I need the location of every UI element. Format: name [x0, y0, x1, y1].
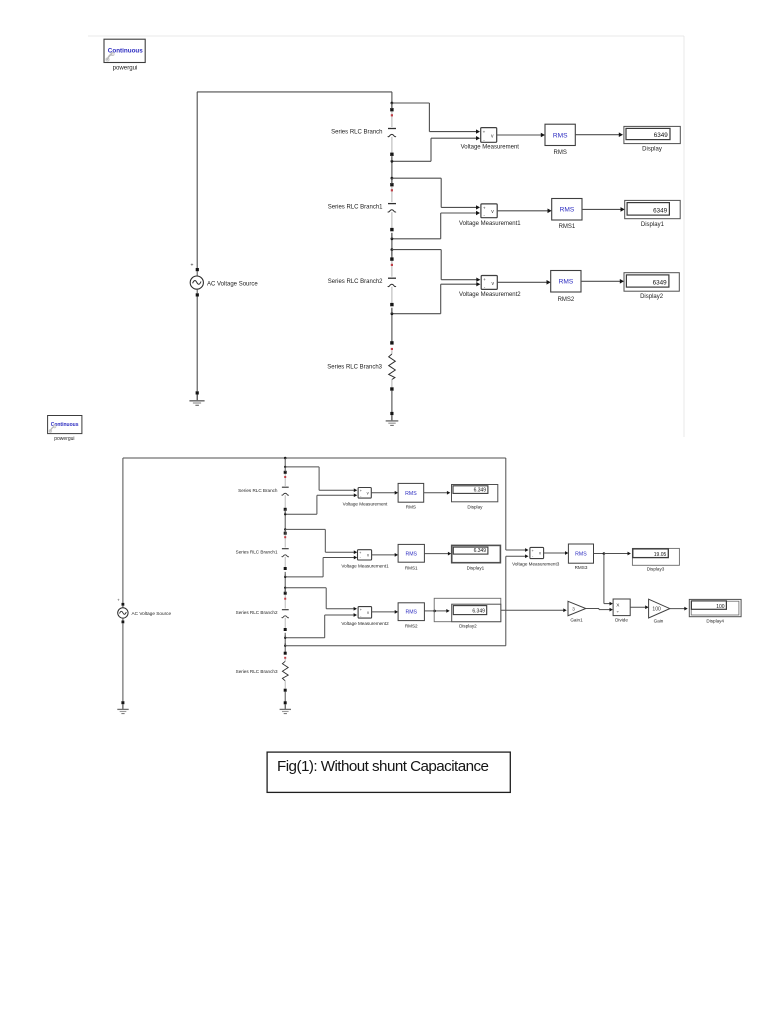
- wire: RMS to Display (lower row1): [424, 492, 449, 494]
- wire: branch node to VM+ (lower): [284, 528, 286, 530]
- wire: lower between branch3 and bottom nodes: [284, 635, 286, 652]
- display block: Display: [624, 126, 680, 143]
- svg-text:Display2: Display2: [459, 624, 477, 629]
- wire: vertical between nodes (lower): [284, 529, 286, 534]
- svg-text:Display: Display: [642, 147, 662, 153]
- gain block: Gain: [649, 599, 670, 618]
- svg-text:RMS: RMS: [575, 552, 587, 558]
- wire: branch node to VM+ (top): [391, 177, 394, 180]
- wire: Gain1 to Divide bottom input: [586, 608, 599, 610]
- svg-text:Series RLC Branch1: Series RLC Branch1: [236, 549, 278, 554]
- svg-text:6.349: 6.349: [472, 609, 485, 615]
- RMS block: RMS2: [398, 603, 424, 621]
- svg-text:Voltage Measurement: Voltage Measurement: [461, 145, 520, 151]
- display block: Display2: [452, 604, 501, 622]
- caption box: [267, 752, 510, 792]
- wire: RMS2 to Display2: [581, 280, 623, 282]
- voltage measurement block: Voltage Measurement3: [530, 547, 544, 558]
- svg-text:+: +: [483, 129, 486, 134]
- wire: VM- return to branch node (top): [441, 212, 479, 214]
- ground G3 (left, lower diagram): [117, 701, 128, 713]
- display block: Display1: [625, 200, 681, 218]
- svg-text:Gain1: Gain1: [570, 618, 583, 623]
- wire: VM2 to RMS2 (lower): [372, 611, 397, 613]
- svg-text:+: +: [191, 263, 194, 269]
- svg-text:powergui: powergui: [54, 436, 74, 442]
- series RLC branch (lower): Series RLC Branch1: [282, 532, 289, 570]
- svg-text:RMS: RMS: [554, 150, 567, 156]
- svg-text:Series RLC Branch: Series RLC Branch: [238, 488, 278, 493]
- voltage measurement block: Voltage Measurement2: [358, 607, 372, 619]
- svg-text:AC Voltage Source: AC Voltage Source: [132, 611, 172, 616]
- AC Voltage Source (top): [190, 263, 203, 297]
- svg-text:19.05: 19.05: [654, 552, 667, 558]
- svg-text:Voltage Measurement2: Voltage Measurement2: [341, 621, 389, 626]
- display block: Display4: [689, 599, 741, 616]
- svg-text:Series RLC Branch3: Series RLC Branch3: [327, 364, 382, 370]
- voltage measurement block: Voltage Measurement1: [358, 550, 372, 560]
- svg-text:Series RLC Branch: Series RLC Branch: [331, 129, 382, 135]
- voltage measurement block: Voltage Measurement: [481, 128, 497, 143]
- voltage measurement block: Voltage Measurement1: [481, 204, 497, 218]
- svg-text:RMS2: RMS2: [405, 624, 418, 629]
- series RLC branch: Series RLC Branch3 (resistor): [389, 341, 396, 390]
- display block: Display1: [452, 545, 501, 562]
- svg-text:100: 100: [716, 604, 725, 610]
- wire: VM1 to RMS1 (lower): [372, 554, 397, 556]
- wire: RMS1 to Display1: [582, 208, 623, 210]
- wire: vertical between nodes (lower): [284, 588, 286, 593]
- series RLC branch (lower): Series RLC Branch3 (resistor): [282, 652, 288, 692]
- wire: vertical between nodes (top): [391, 250, 393, 256]
- wire: between branch2 and branch3: [391, 233, 393, 259]
- display block: Display2: [624, 273, 679, 292]
- svg-text:powergui: powergui: [113, 65, 138, 72]
- voltage measurement block: Voltage Measurement: [358, 488, 371, 499]
- svg-text:Display4: Display4: [706, 618, 724, 623]
- wire: Gain to Display4: [670, 608, 686, 610]
- svg-text:Gain: Gain: [654, 619, 664, 624]
- wire: lower between branch1 and branch2: [284, 458, 286, 467]
- wire: loop top to VM3+ (right edge of box): [505, 458, 507, 550]
- svg-text:+: +: [483, 205, 486, 210]
- wire: right vertical top segment: [391, 92, 393, 109]
- svg-text:Voltage Measurement: Voltage Measurement: [343, 502, 388, 507]
- powergui block (lower): [48, 416, 82, 434]
- wire: RMS3 to junction and Display3: [594, 553, 604, 555]
- wire: left vertical upper: [196, 92, 198, 269]
- wire: lower branch4 to ground: [284, 692, 286, 702]
- svg-text:RMS1: RMS1: [405, 566, 418, 571]
- wire: RMS to Display: [575, 134, 621, 136]
- wire: lower loop top horizontal: [123, 457, 506, 459]
- svg-text:RMS: RMS: [405, 551, 417, 557]
- ground G4 (right, lower diagram): [280, 701, 291, 713]
- wire: lower left vertical lower: [122, 623, 124, 701]
- svg-text:Voltage Measurement1: Voltage Measurement1: [459, 221, 521, 227]
- wire: top loop horizontal: [197, 91, 392, 93]
- svg-text:6349: 6349: [653, 208, 668, 215]
- wire: branch node to VM+ (lower): [284, 587, 286, 589]
- svg-text:RMS: RMS: [405, 491, 417, 497]
- svg-text:RMS: RMS: [406, 504, 416, 509]
- series RLC branch (lower): Series RLC Branch: [282, 471, 289, 511]
- wire: VM- return to branch node (lower): [323, 557, 356, 559]
- wire: Divide to Gain: [630, 606, 647, 608]
- wire: lower between branch2 and branch3: [284, 574, 286, 593]
- display block: Display3: [633, 549, 669, 558]
- svg-text:Series RLC Branch2: Series RLC Branch2: [236, 610, 278, 615]
- svg-text:RMS: RMS: [560, 207, 575, 214]
- wire: VM- return to branch node (lower): [317, 494, 356, 496]
- svg-text:RMS3: RMS3: [575, 565, 588, 570]
- wire: between branch3 and branch4: [391, 309, 393, 343]
- svg-text:Series RLC Branch3: Series RLC Branch3: [236, 669, 278, 674]
- wire: branch node to VM+ (top): [391, 248, 394, 251]
- RMS block: RMS3: [568, 544, 593, 563]
- svg-text:Display2: Display2: [640, 294, 664, 300]
- wire: VM- return to branch node (lower): [325, 614, 356, 616]
- ground G1 (left, top diagram): [189, 391, 204, 405]
- gain block: Gain1: [568, 601, 586, 615]
- AC Voltage Source (lower): [117, 598, 128, 624]
- wire: branch4 to ground: [391, 391, 393, 412]
- wire: between branch1 and branch2: [391, 157, 393, 184]
- svg-text:6.349: 6.349: [474, 487, 487, 493]
- divide block: Divide: [613, 599, 630, 616]
- svg-text:AC Voltage Source: AC Voltage Source: [207, 281, 258, 287]
- series RLC branch (lower): Series RLC Branch2: [282, 592, 289, 631]
- series RLC branch: Series RLC Branch: [388, 108, 396, 156]
- wire: junction down to Divide X input: [603, 554, 605, 604]
- wire: VM3 to RMS3: [544, 552, 567, 554]
- RMS block: RMS2: [551, 271, 581, 293]
- wire: VM2 to RMS2: [497, 281, 549, 283]
- svg-text:Display1: Display1: [467, 566, 485, 571]
- wire: VM1 to RMS1: [497, 210, 550, 212]
- wire: vertical between nodes (lower): [284, 467, 286, 472]
- wire: Display2 output to Gain1: [501, 609, 565, 611]
- RMS block: RMS1: [552, 199, 582, 221]
- svg-text:RMS1: RMS1: [559, 224, 576, 230]
- svg-text:Continuous: Continuous: [108, 47, 143, 54]
- svg-text:100: 100: [652, 606, 661, 612]
- svg-text:RMS: RMS: [559, 279, 574, 286]
- wire: RMS2 junction to Display2 (lower): [424, 610, 434, 612]
- ground G2 (right, top diagram): [386, 412, 399, 426]
- svg-text:Fig(1): Without shunt Capacita: Fig(1): Without shunt Capacitance: [277, 758, 489, 775]
- wire: VM- return to branch node (top): [431, 137, 479, 139]
- svg-text:Display: Display: [467, 504, 483, 509]
- svg-text:+: +: [483, 277, 486, 282]
- svg-text:6.349: 6.349: [474, 548, 487, 554]
- series RLC branch: Series RLC Branch1: [388, 183, 396, 231]
- selection box around Display2 (lower): [434, 598, 501, 621]
- wire: loop bottom to VM3-: [284, 645, 286, 647]
- wire: VM to RMS: [497, 134, 544, 136]
- RMS block: RMS: [398, 483, 424, 502]
- selection box around Display3: [632, 548, 679, 565]
- svg-text:RMS: RMS: [553, 132, 568, 139]
- wire: lower left vertical upper: [122, 458, 124, 603]
- svg-text:RMS: RMS: [405, 610, 417, 616]
- wire: branch node to VM+ (top): [391, 102, 394, 105]
- svg-text:6349: 6349: [654, 132, 669, 139]
- svg-text:3: 3: [572, 607, 575, 612]
- RMS block: RMS: [545, 124, 575, 145]
- powergui block (top): [104, 39, 145, 62]
- wire: VM to RMS (lower row1): [371, 492, 396, 494]
- wire: branch node to VM+ (lower): [284, 466, 286, 468]
- svg-text:Series RLC Branch1: Series RLC Branch1: [328, 204, 383, 210]
- svg-text:Display1: Display1: [641, 222, 665, 228]
- wire: left vertical lower: [196, 297, 198, 392]
- wire: VM- return to branch node (top): [441, 283, 480, 285]
- svg-text:RMS2: RMS2: [558, 297, 575, 303]
- junction: lower top wire at branch column: [284, 457, 287, 460]
- wire: vertical between nodes (top): [391, 103, 393, 109]
- svg-text:Voltage Measurement2: Voltage Measurement2: [459, 292, 521, 298]
- top screenshot faint edge: [88, 35, 684, 37]
- series RLC branch: Series RLC Branch2: [388, 257, 396, 306]
- wire: vertical between nodes (top): [391, 178, 393, 184]
- svg-text:Voltage Measurement1: Voltage Measurement1: [341, 563, 389, 568]
- svg-text:Voltage Measurement3: Voltage Measurement3: [512, 561, 560, 566]
- svg-text:Divide: Divide: [615, 618, 628, 623]
- RMS block: RMS1: [398, 544, 424, 562]
- svg-text:÷: ÷: [616, 611, 619, 616]
- voltage measurement block: Voltage Measurement2: [481, 276, 497, 290]
- svg-text:6349: 6349: [653, 280, 668, 287]
- wire: RMS1 to Display1 (lower): [424, 553, 449, 555]
- display block: Display: [452, 485, 498, 502]
- svg-text:Series RLC Branch2: Series RLC Branch2: [328, 279, 383, 285]
- svg-text:Display3: Display3: [647, 567, 665, 572]
